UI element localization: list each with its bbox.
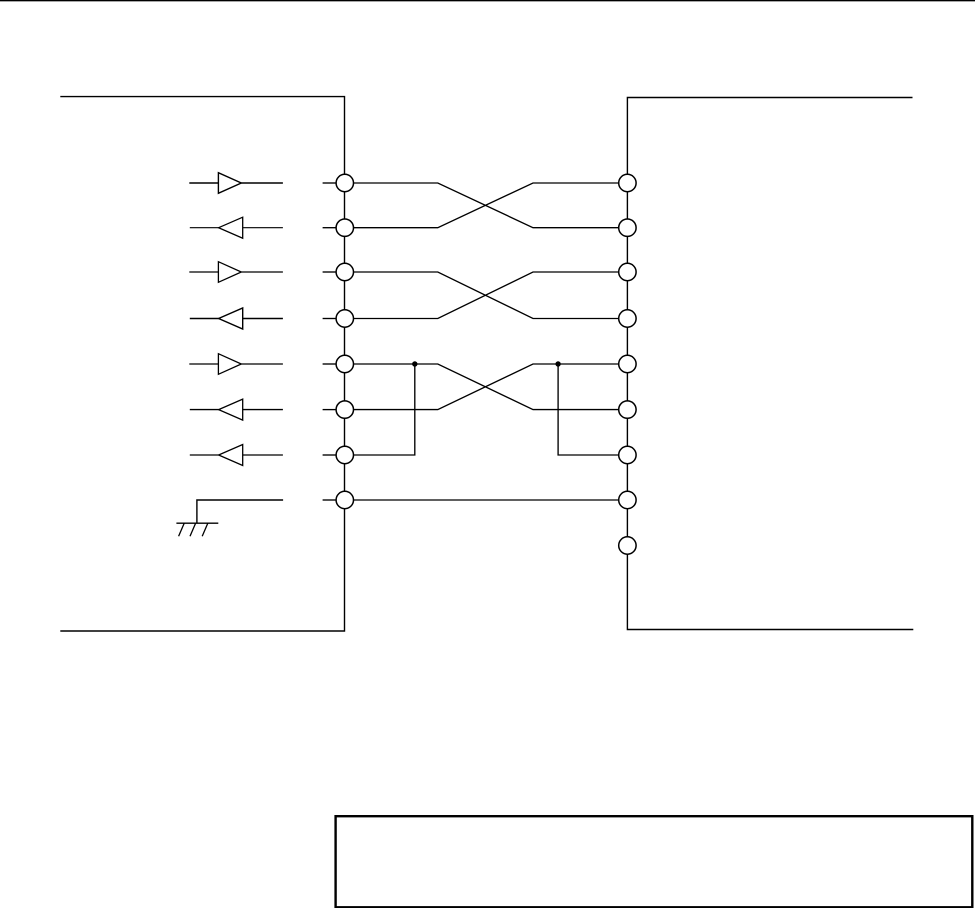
wire row 8 straight through: [354, 499, 619, 501]
wire row 8 signal-ground lead: [197, 500, 283, 523]
pin circle left 3: [336, 263, 353, 280]
wire stub left pin 2: [323, 227, 336, 229]
pin circle right 4: [619, 310, 636, 327]
wire left pin 7 to junction: [354, 364, 415, 455]
pin circle left 7: [336, 446, 353, 463]
device box right (connector outline): [627, 98, 913, 630]
pin circle left 8: [336, 491, 353, 508]
pin circle left 1: [336, 174, 353, 191]
pin circle left 4: [336, 310, 353, 327]
pin circle right 9: [619, 537, 636, 554]
pin circle right 1: [619, 174, 636, 191]
pin circle right 5: [619, 355, 636, 372]
driver buffer row 5: [189, 354, 283, 375]
wire stub left pin 6: [323, 409, 336, 411]
junction dot left row 5: [412, 361, 417, 366]
wire crossover rows 1-2 upper: [354, 183, 619, 228]
ground: [176, 523, 218, 536]
wire stub left pin 8: [323, 499, 336, 501]
wire right pin 7 to junction: [558, 364, 619, 455]
receiver buffer row 6: [190, 399, 283, 420]
receiver buffer row 7: [190, 445, 283, 466]
driver buffer row 3: [189, 262, 283, 283]
wire crossover rows 5-6 lower: [354, 364, 619, 410]
wire stub left pin 3: [323, 271, 336, 273]
wire crossover rows 5-6 upper: [354, 364, 619, 410]
pin circle left 2: [336, 219, 353, 236]
note box: [336, 816, 973, 907]
wire crossover rows 1-2 lower: [354, 183, 619, 228]
wire stub left pin 4: [323, 318, 336, 320]
pin circle right 6: [619, 401, 636, 418]
pin circle left 6: [336, 401, 353, 418]
wire crossover rows 3-4 lower: [354, 272, 619, 319]
wire crossover rows 3-4 upper: [354, 272, 619, 319]
driver buffer row 1: [189, 173, 283, 194]
wire stub left pin 7: [323, 454, 336, 456]
top rule: [0, 0, 975, 1]
pin circle right 2: [619, 219, 636, 236]
device box left (connector outline): [60, 97, 344, 631]
receiver buffer row 4: [190, 308, 283, 329]
receiver buffer row 2: [190, 217, 283, 238]
pin circle right 7: [619, 446, 636, 463]
pin circle right 3: [619, 263, 636, 280]
wire stub left pin 1: [323, 182, 336, 184]
wire stub left pin 5: [323, 363, 336, 365]
junction dot right row 5: [555, 361, 560, 366]
pin circle left 5: [336, 355, 353, 372]
pin circle right 8: [619, 491, 636, 508]
